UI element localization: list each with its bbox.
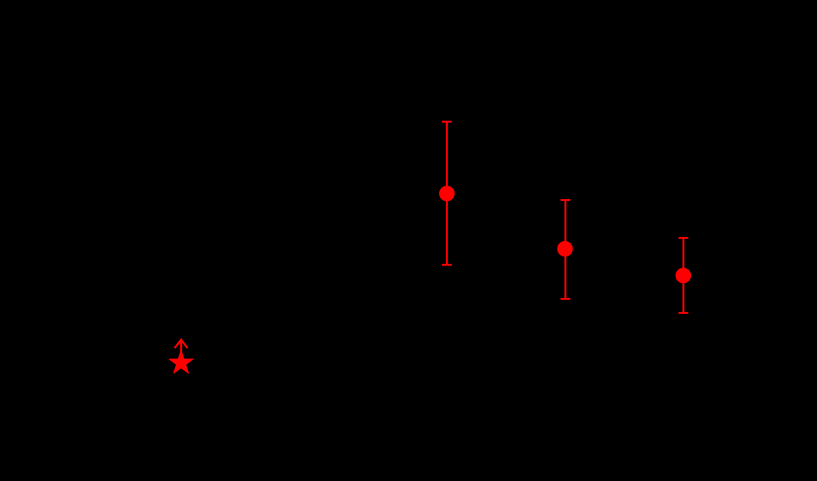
errorbar 3 bottom cap xyxy=(679,312,689,314)
errorbar 2 bottom cap xyxy=(561,298,571,300)
errorbar 1 top cap xyxy=(442,121,452,123)
lower-limit arrow head xyxy=(175,340,188,348)
errorbar 3 top cap xyxy=(679,237,689,239)
errorbar 2 top cap xyxy=(561,199,571,201)
errorbar 2 vertical line xyxy=(564,200,566,299)
errorbar 1 bottom cap xyxy=(442,264,452,266)
lower-limit arrow shaft xyxy=(180,340,182,357)
star marker (upper-limit point) xyxy=(169,351,193,374)
data point 1 xyxy=(440,186,455,201)
errorbar 3 vertical line xyxy=(682,238,684,313)
data point 2 xyxy=(558,242,573,257)
data point 3 xyxy=(676,268,691,283)
errorbar 1 vertical line xyxy=(446,122,448,265)
